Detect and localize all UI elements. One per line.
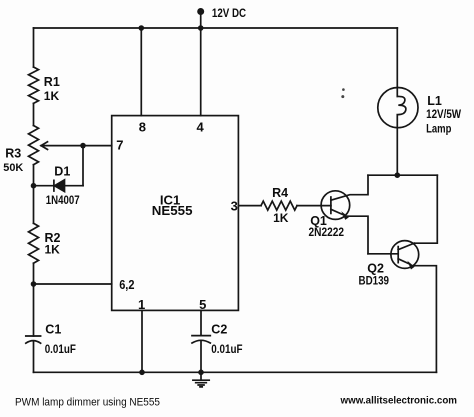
node junction ground/bottom rail [198,370,204,376]
wire Q2 collector riser [414,175,437,243]
svg-text:C1: C1 [45,322,61,336]
svg-text:R4: R4 [272,186,288,200]
svg-text:Q2: Q2 [367,262,384,276]
wire pin 3 to R4 [238,205,261,207]
capacitor C2 [192,336,210,343]
svg-text:R1: R1 [44,75,60,89]
svg-text:www.allitselectronic.com: www.allitselectronic.com [340,396,458,407]
svg-text:12V/5W: 12V/5W [426,109,461,121]
svg-text:7: 7 [116,138,123,153]
wire R1 to R3 [33,103,35,125]
svg-text:BD139: BD139 [359,275,390,287]
ground [193,372,209,387]
wire pin 1 [141,310,143,372]
svg-text:50K: 50K [3,162,23,174]
node 12V terminal [197,8,204,15]
svg-text:L1: L1 [427,94,442,108]
R3 wiper arrow [41,142,112,150]
node junction pin4/rail [198,25,204,31]
svg-text:0.01uF: 0.01uF [211,344,242,356]
node junction R2/pin 6,2 [31,281,37,287]
node junction wiper/diode [80,143,86,149]
wire collector bus [368,174,437,176]
wire top supply rail [34,27,398,29]
svg-text:8: 8 [139,120,146,135]
svg-text:5: 5 [199,297,206,312]
svg-text:1K: 1K [44,89,60,103]
transistor Q1 [321,191,350,220]
svg-text:0.01uF: 0.01uF [45,344,76,356]
resistor R1 [29,67,39,103]
wire R2 to C1 [33,263,35,336]
wire pin 5 to C2 [200,310,202,335]
capacitor C1 [26,336,41,343]
svg-text:C2: C2 [211,322,227,336]
svg-text:D1: D1 [54,164,70,178]
wire R4 to Q1 base [297,205,331,207]
wire C1 to bottom rail [33,341,35,372]
svg-text:1K: 1K [273,211,289,225]
resistor R3 body [29,126,39,165]
node junction diode/left rail [31,183,37,189]
wire D1 node to R2 [33,186,35,224]
svg-text:PWM lamp dimmer using NE555: PWM lamp dimmer using NE555 [15,397,160,409]
wire R3 to D1 node [33,165,35,186]
svg-text:R3: R3 [5,147,21,161]
IC1 box [112,116,239,311]
transistor Q2 [391,241,419,269]
svg-text:NE555: NE555 [152,204,193,218]
svg-text:1: 1 [138,297,145,312]
svg-text:Lamp: Lamp [426,124,451,136]
svg-text:12V DC: 12V DC [212,6,246,20]
svg-text:3: 3 [231,199,238,214]
resistor R2 [29,223,39,263]
wire C2 to rail [200,341,202,372]
wire lamp bottom lead [396,128,398,176]
svg-text:6,2: 6,2 [119,277,134,292]
wire left rail top segment [33,28,35,67]
wire lamp top lead [396,28,398,88]
wire 12V terminal stem / pin 4 riser [200,12,202,116]
svg-text:1N4007: 1N4007 [46,195,80,207]
svg-text:2N2222: 2N2222 [309,227,345,239]
artifact dots [342,88,345,91]
wire Q1 emitter to Q2 base [368,253,398,255]
wire pin 8 riser [140,28,142,116]
resistor R4 [261,201,297,210]
svg-text:1K: 1K [45,243,61,257]
node junction pin1/bottom rail [139,370,145,376]
diode D1 [34,180,84,191]
wire bottom rail [34,371,437,373]
svg-text:4: 4 [197,120,205,135]
node junction pin8/rail [139,25,145,31]
wire pin 6,2 [34,283,112,285]
lamp L1 [378,88,418,128]
svg-text:Q1: Q1 [310,214,327,228]
node junction lamp/collector bus [395,172,401,178]
wire wiper branch down to diode [82,146,84,186]
